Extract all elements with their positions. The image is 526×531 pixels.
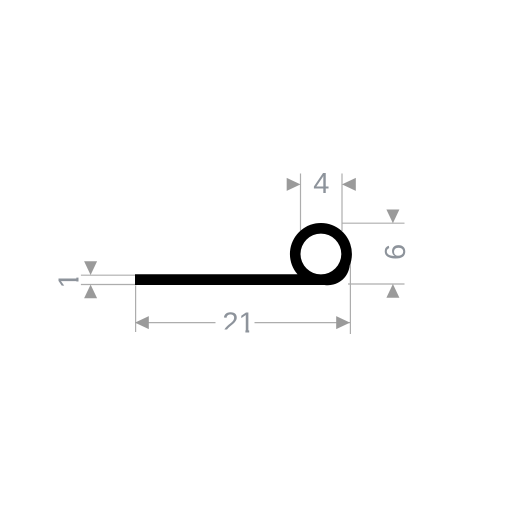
- svg-text:4: 4: [313, 168, 329, 200]
- dimension 21: dimension line right segment: [255, 322, 351, 324]
- dimension 1 (left): extension line top: [81, 274, 137, 276]
- svg-text:6: 6: [380, 244, 412, 260]
- dimension 6 (right): extension line bottom: [348, 283, 405, 285]
- dimension 4 (top): extension line right: [341, 174, 343, 232]
- dimension 21: right-pointing arrow: [336, 316, 350, 329]
- dimension 6 (right): extension line top: [342, 222, 405, 224]
- dimension 21 (bottom): extension line right: [349, 254, 351, 334]
- dimension 21: left-pointing arrow: [135, 316, 149, 329]
- svg-text:1: 1: [54, 272, 86, 288]
- dimension 6: up arrow: [386, 284, 399, 298]
- dimension 6: label "6": [380, 244, 412, 260]
- dimension 4: right-pointing arrow: [287, 178, 301, 191]
- dimension 1 (left): extension line bottom: [81, 284, 137, 286]
- dimension 1: label "1": [54, 272, 86, 288]
- dimension 1: down arrow: [84, 261, 97, 275]
- dimension 21: dimension line left segment: [135, 322, 216, 324]
- dimension 6: down arrow: [386, 210, 399, 224]
- dimension 21 (bottom): extension line left: [135, 286, 137, 333]
- profile P cross-section (flat bar with ring): [135, 223, 352, 285]
- dimension 1: up arrow: [84, 285, 97, 299]
- dimension 4 (top): extension line left: [300, 174, 302, 232]
- dimension 4: left-pointing arrow: [342, 178, 356, 191]
- svg-text:21: 21: [222, 308, 254, 340]
